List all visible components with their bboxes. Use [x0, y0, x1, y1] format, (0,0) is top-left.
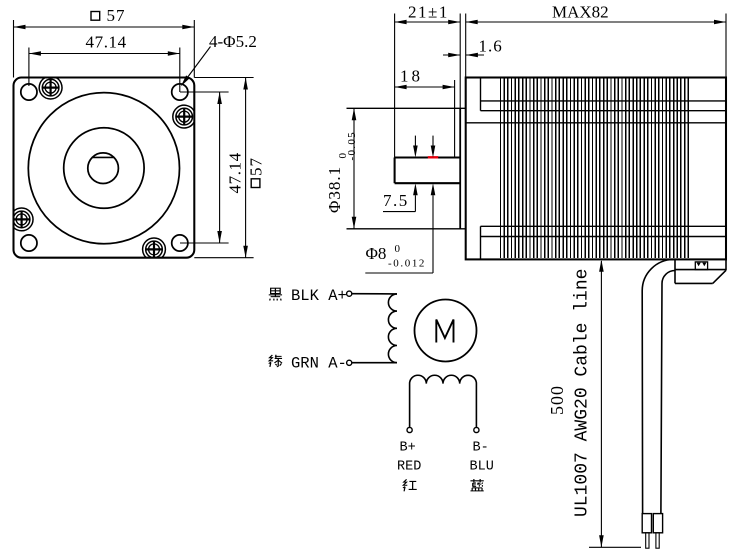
terminal A-: [347, 360, 352, 365]
svg-text:57: 57: [107, 6, 126, 25]
dim sq57 right line: [243, 78, 248, 258]
label GRN A- text: [291, 354, 347, 372]
pilot boss: [347, 108, 466, 229]
dim phi8 leader: [365, 272, 433, 274]
dim 47.14 top text: [86, 33, 127, 52]
svg-text:21±1: 21±1: [408, 3, 449, 22]
dim 500 extension line: [589, 546, 641, 548]
dim phi8 text: [366, 243, 427, 270]
svg-text:UL1007 AWG20 Cable line: UL1007 AWG20 Cable line: [573, 269, 593, 517]
svg-text:B-: B-: [473, 441, 489, 456]
svg-text:BLK A+: BLK A+: [291, 287, 347, 305]
label BLU chinese: [470, 479, 483, 491]
corner screw S3: [13, 208, 33, 231]
dim 18 line: [395, 85, 455, 90]
dim 7.5 lower arrow: [413, 183, 418, 211]
dim 1.6 text: [479, 37, 503, 56]
corner screw S1: [39, 78, 62, 99]
cable exit block: [675, 259, 726, 283]
label 4-phi5.2 leader: [181, 47, 211, 87]
strain relief vent symbol: [695, 262, 707, 270]
cable inner edge: [661, 271, 675, 514]
label GRN A- chinese: [269, 355, 282, 367]
dim 500 line: [599, 260, 604, 548]
dim 1.6 arrows: [443, 53, 484, 58]
svg-text:57: 57: [246, 157, 265, 176]
dim sq57 top extension lines: [14, 20, 195, 78]
dim 21 line: [395, 20, 461, 25]
dim 21 text: [408, 3, 449, 22]
svg-text:47.14: 47.14: [86, 33, 127, 52]
dim sq57 top line: [14, 25, 195, 30]
svg-text:MAX82: MAX82: [552, 3, 609, 22]
label BLU text: [470, 460, 494, 475]
front endcap step lines top: [466, 78, 726, 123]
dim 21 extension line: [394, 14, 396, 158]
terminal B+: [407, 427, 412, 432]
dim 47.14 top line: [29, 51, 180, 56]
dim max82 text: [552, 3, 609, 22]
dim 47.14 right extension lines: [180, 92, 229, 243]
front endcap step lines bottom: [481, 226, 727, 259]
dim 47.14 right text: [225, 152, 244, 193]
lamination fins hatch: [501, 78, 689, 258]
terminal A+: [347, 291, 352, 296]
svg-text:Φ8: Φ8: [366, 244, 387, 263]
svg-text:7.5: 7.5: [383, 191, 409, 210]
label cable line text: [573, 269, 593, 517]
cable sheath ends: [642, 514, 662, 533]
dim 7.5 leader: [383, 211, 415, 213]
dim 7.5 text: [383, 191, 409, 210]
dim phi8 lower arrow: [431, 183, 436, 273]
coil A phase: [388, 294, 397, 363]
label 4-phi5.2 text: [209, 32, 257, 51]
svg-text:1.6: 1.6: [479, 37, 503, 56]
svg-text:500: 500: [547, 385, 567, 415]
mounting hole BR: [172, 235, 188, 251]
mounting hole BL: [21, 235, 37, 251]
dim phi8 upper arrow: [431, 136, 436, 158]
svg-text:18: 18: [400, 67, 423, 86]
side view body outline: [466, 78, 726, 260]
dim phi38.1 line: [352, 108, 357, 229]
cable wires: [646, 533, 660, 548]
motor letter M: [436, 320, 453, 343]
shaft flat mark red: [428, 156, 438, 158]
dim pilot face extension: [459, 14, 461, 109]
mounting hole TR: [172, 84, 188, 100]
dim max82 line: [466, 20, 726, 25]
shaft outline: [395, 158, 461, 184]
front view rotor circle: [64, 128, 144, 208]
label RED chinese: [403, 479, 417, 491]
dim max82 extension lines: [466, 14, 726, 78]
svg-text:B+: B+: [400, 441, 416, 456]
svg-text:47.14: 47.14: [225, 152, 244, 193]
front view shaft flat chord: [92, 156, 113, 158]
cable outer edge: [642, 260, 673, 514]
wire A+: [352, 293, 397, 295]
dim sq57 right extension lines: [194, 78, 253, 258]
label B- text: [473, 441, 489, 456]
svg-text:Φ38.1: Φ38.1: [325, 166, 344, 213]
label BLK A+ chinese: [269, 288, 282, 300]
mounting hole TL: [21, 84, 37, 100]
svg-text:-0.012: -0.012: [388, 258, 426, 270]
label B+ text: [400, 441, 416, 456]
motor circle M: [415, 300, 477, 362]
dim phi38.1 text: [325, 131, 358, 213]
svg-text:RED: RED: [397, 460, 421, 475]
terminal B-: [474, 427, 479, 432]
front view shaft circle: [88, 153, 119, 184]
svg-text:-0.05: -0.05: [346, 131, 358, 160]
motor front view flange outline: [14, 78, 195, 258]
svg-text:GRN A-: GRN A-: [291, 354, 347, 372]
svg-text:BLU: BLU: [470, 460, 494, 475]
front view body circle: [28, 93, 179, 244]
dim 7.5 upper arrow: [413, 136, 418, 158]
dim 47.14 right line: [217, 92, 222, 243]
wire A-: [352, 362, 397, 364]
coil B phase: [410, 375, 477, 429]
label BLK A+ text: [291, 287, 347, 305]
corner screw S2: [173, 105, 194, 128]
svg-text:4-Φ5.2: 4-Φ5.2: [209, 32, 257, 51]
dim 18 extension line: [454, 80, 456, 158]
dim sq57 right text: [246, 157, 265, 188]
corner screw S4: [143, 238, 166, 258]
dim sq57 top text: [91, 6, 126, 25]
dim 500 text: [547, 385, 567, 415]
label RED text: [397, 460, 421, 475]
svg-text:0: 0: [395, 243, 401, 255]
dim 47.14 top extension lines: [29, 48, 180, 93]
dim 18 text: [400, 67, 423, 86]
